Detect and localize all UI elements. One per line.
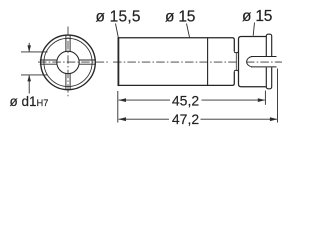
side view: body top edge [118,38,234,52]
d1 dimension: bottom extension line [21,74,48,76]
end cap [266,34,271,89]
extension line left (shared) [117,91,119,123]
svg-text:ø 15: ø 15 [165,9,195,26]
front view: horizontal centerline [38,61,110,63]
svg-text:47,2: 47,2 [172,111,199,127]
slot right (front view) [79,60,96,64]
front view: chamfer circle [44,38,92,86]
svg-text:ø 15,5: ø 15,5 [96,8,141,25]
groove between body and collar [234,51,238,71]
extension line 47,2 right [277,69,279,123]
d1 dimension: bottom arrow [27,75,31,94]
leader ø15 collar [253,23,254,36]
slot top (front view) [66,35,70,51]
collar [239,37,267,87]
dimension 45,2 [118,92,265,108]
front view: bore circle d1 [57,51,79,73]
slot bottom (front view) [66,74,70,90]
extension line 45,2 right [264,91,266,105]
front view: vertical centerline [67,27,69,97]
d1 dimension: top extension line [21,51,48,53]
svg-text:ø 15: ø 15 [242,8,272,25]
side view: slot-end line [207,38,209,86]
side view: body bottom edge [118,72,234,86]
side view: centerline [113,61,282,63]
collar slot [246,56,282,67]
d1 dimension: top arrow [27,43,31,52]
svg-text:45,2: 45,2 [172,92,199,108]
leader ø15 body [187,24,190,38]
dimension 47,2 [118,111,277,127]
leader ø15,5 [116,24,119,38]
slot left (front view, lines extend slightly past circle) [40,60,57,64]
front view: outer circle [41,35,96,90]
side view: body left edge [117,37,119,86]
